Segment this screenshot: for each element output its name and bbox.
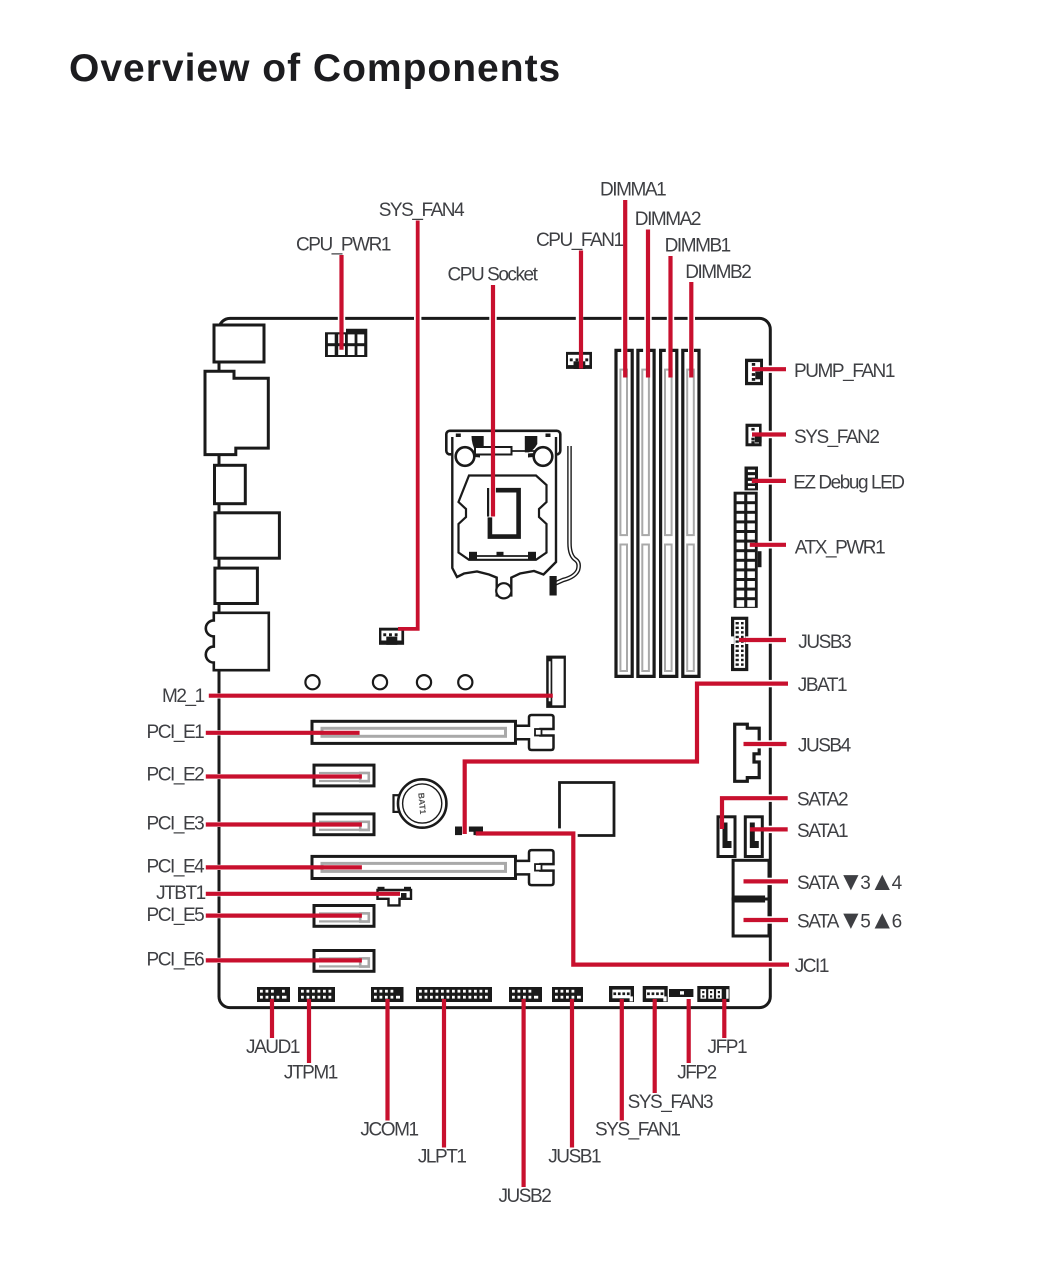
retention bracket top xyxy=(446,431,560,455)
io port 5 xyxy=(215,568,258,603)
leader SATA2 xyxy=(722,798,788,829)
circle left xyxy=(456,447,475,466)
bottom bar details xyxy=(469,555,536,557)
leader PUMP_FAN1 xyxy=(752,367,786,371)
bracket black wedges xyxy=(472,436,484,452)
leader PCI_E1 xyxy=(206,731,360,735)
PCI_E1 slot xyxy=(312,715,554,750)
leader JLPT1 xyxy=(442,999,446,1148)
svg-text:Overview of Components: Overview of Components xyxy=(69,47,561,90)
leader CPU_FAN1 xyxy=(579,251,583,369)
SATA1 port xyxy=(745,817,762,857)
leader JTPM1 xyxy=(307,999,311,1063)
header JCOM1 xyxy=(371,987,404,1002)
DIMM slot DIMMA1 xyxy=(616,350,632,676)
screw holes xyxy=(305,675,472,689)
svg-text:JCI1: JCI1 xyxy=(795,956,829,977)
PCI_E5 slot xyxy=(314,906,374,927)
leader SYS_FAN4 xyxy=(398,221,418,629)
thick divider xyxy=(733,896,765,903)
svg-text:SYS_FAN3: SYS_FAN3 xyxy=(628,1092,713,1113)
header SYS_FAN1 xyxy=(609,986,634,1002)
leader JCI1 xyxy=(476,834,789,965)
svg-text:SATA2: SATA2 xyxy=(797,790,848,811)
leader SYS_FAN1 xyxy=(620,999,624,1121)
leader PCI_E4 xyxy=(206,865,362,869)
svg-text:JTBT1: JTBT1 xyxy=(156,883,206,904)
leader PCI_E6 xyxy=(206,958,362,962)
header JFP2 xyxy=(669,989,693,997)
svg-text:JTPM1: JTPM1 xyxy=(284,1062,338,1083)
connector JUSB4 xyxy=(735,724,760,781)
leader SYS_FAN3 xyxy=(653,999,657,1093)
connector SYS_FAN2 xyxy=(746,424,762,447)
leader SATA 5/6 xyxy=(744,918,789,922)
header JUSB2 xyxy=(509,987,542,1002)
leader SATA 3/4 xyxy=(744,879,789,883)
SATA 5/6 block xyxy=(733,899,769,936)
leader JUSB3 xyxy=(739,638,786,642)
svg-text:JBAT1: JBAT1 xyxy=(798,675,847,696)
DIMM slot DIMMA2 xyxy=(638,350,654,676)
svg-text:PCI_E1: PCI_E1 xyxy=(147,722,205,743)
svg-text:JUSB2: JUSB2 xyxy=(498,1186,551,1207)
small PCI_E slots xyxy=(314,765,374,971)
svg-text:CPU_PWR1: CPU_PWR1 xyxy=(296,235,391,256)
header JFP1 xyxy=(697,986,729,1002)
leader PCI_E3 xyxy=(206,822,362,826)
socket body octagon xyxy=(459,476,547,560)
connector PUMP_FAN1 xyxy=(745,359,763,386)
leader SATA1 xyxy=(750,827,788,831)
leader DIMMB1 xyxy=(668,256,672,378)
front plate bar xyxy=(475,447,512,455)
svg-text:PCI_E5: PCI_E5 xyxy=(147,905,205,926)
DIMM slot DIMMB2 xyxy=(683,350,699,676)
connector CPU_PWR1 xyxy=(325,329,367,357)
svg-text:JLPT1: JLPT1 xyxy=(418,1147,467,1168)
leader JAUD1 xyxy=(270,999,274,1038)
svg-text:JUSB4: JUSB4 xyxy=(798,736,852,757)
cpu socket xyxy=(446,431,578,599)
header JUSB1 xyxy=(552,987,583,1002)
svg-text:JUSB3: JUSB3 xyxy=(798,632,851,653)
io port 3 xyxy=(215,465,246,503)
leader JUSB2 xyxy=(521,999,525,1187)
svg-text:JFP2: JFP2 xyxy=(677,1062,716,1083)
left IO shapes xyxy=(205,325,279,670)
leader CPU_PWR1 xyxy=(339,255,343,350)
latch PCI_E4 xyxy=(516,850,554,885)
jumper JCI1 xyxy=(469,827,483,836)
lever hook xyxy=(550,576,557,596)
leader M2_1 xyxy=(209,694,553,698)
connector SYS_FAN4 xyxy=(379,628,404,645)
PCI_E2 slot xyxy=(314,765,374,786)
jumper JBAT1 xyxy=(455,827,462,836)
io port 6 (audio) xyxy=(206,613,269,670)
svg-text:PCI_E6: PCI_E6 xyxy=(147,950,205,971)
svg-text:SATA▼3▲4: SATA▼3▲4 xyxy=(797,866,903,896)
PCI_E6 slot xyxy=(314,951,374,972)
connector ATX_PWR1 xyxy=(734,492,762,608)
svg-text:PCI_E4: PCI_E4 xyxy=(147,856,206,877)
svg-text:M2_1: M2_1 xyxy=(162,686,205,707)
leader DIMMA2 xyxy=(646,230,650,378)
SATA2 port xyxy=(718,817,735,857)
header JTPM1 xyxy=(298,987,335,1002)
svg-text:PCI_E3: PCI_E3 xyxy=(147,814,205,835)
svg-text:SATA▼5▲6: SATA▼5▲6 xyxy=(797,905,902,935)
io port 4 xyxy=(215,513,280,558)
red leader lines xyxy=(206,200,789,1187)
svg-text:PCI_E2: PCI_E2 xyxy=(147,765,205,786)
connector CPU_FAN1 xyxy=(566,352,592,369)
leader DIMMB2 xyxy=(689,282,693,378)
PCI_E3 slot xyxy=(314,814,374,835)
DIMM slot DIMMB1 xyxy=(661,350,677,676)
io port 1 xyxy=(214,325,264,362)
svg-text:CPU_FAN1: CPU_FAN1 xyxy=(536,230,623,251)
leader JFP1 xyxy=(722,999,726,1038)
leader SYS_FAN2 xyxy=(752,432,786,436)
header JLPT1 xyxy=(416,987,492,1002)
svg-text:PUMP_FAN1: PUMP_FAN1 xyxy=(794,361,895,382)
leader JTBT1 xyxy=(206,892,400,896)
svg-text:DIMMA2: DIMMA2 xyxy=(635,209,701,230)
svg-text:SYS_FAN1: SYS_FAN1 xyxy=(595,1119,680,1140)
leader JUSB1 xyxy=(570,999,574,1148)
battery BAT1 xyxy=(394,779,447,827)
leader JCOM1 xyxy=(385,999,389,1121)
chipset square xyxy=(560,783,615,836)
DIMM slots xyxy=(616,350,699,676)
connector M2_1 xyxy=(546,656,566,708)
svg-text:SYS_FAN2: SYS_FAN2 xyxy=(794,427,879,448)
latch PCI_E1 xyxy=(516,715,554,750)
socket plate xyxy=(452,437,556,595)
connector JUSB3 xyxy=(729,618,750,669)
white casing where leader lines cross board outline xyxy=(217,315,775,969)
leader PCI_E5 xyxy=(206,913,362,917)
leader PCI_E2 xyxy=(206,774,362,778)
inner square thick xyxy=(487,488,489,517)
right side connectors xyxy=(718,359,769,936)
EZ Debug LED xyxy=(745,467,759,491)
svg-text:ATX_PWR1: ATX_PWR1 xyxy=(795,537,885,558)
PCI_E4 slot xyxy=(312,850,554,885)
bottom header row xyxy=(257,986,730,1002)
leader JUSB4 xyxy=(744,742,787,746)
leader CPU Socket xyxy=(491,285,495,517)
header JAUD1 xyxy=(257,987,290,1002)
svg-text:DIMMB1: DIMMB1 xyxy=(665,236,731,257)
leader EZ Debug LED xyxy=(752,479,786,483)
connector JTBT1 xyxy=(378,887,412,906)
header SYS_FAN3 xyxy=(643,986,668,1002)
leader JFP2 xyxy=(687,999,691,1063)
svg-text:JCOM1: JCOM1 xyxy=(360,1119,418,1140)
svg-text:SYS_FAN4: SYS_FAN4 xyxy=(379,200,465,221)
svg-text:DIMMA1: DIMMA1 xyxy=(600,179,666,200)
leader JBAT1 xyxy=(465,684,788,834)
motherboard outline xyxy=(219,318,770,1007)
leader ATX_PWR1 xyxy=(750,543,786,547)
io port 2 (DVI) xyxy=(205,371,268,454)
svg-text:BAT1: BAT1 xyxy=(416,792,428,815)
svg-text:JUSB1: JUSB1 xyxy=(548,1147,601,1168)
svg-text:CPU Socket: CPU Socket xyxy=(448,264,539,285)
leader DIMMA1 xyxy=(623,200,627,378)
lever rod xyxy=(554,446,579,584)
svg-text:EZ Debug LED: EZ Debug LED xyxy=(793,472,904,493)
svg-text:JFP1: JFP1 xyxy=(708,1037,747,1058)
svg-text:JAUD1: JAUD1 xyxy=(246,1037,300,1058)
bottom tab circle xyxy=(496,583,511,598)
svg-text:DIMMB2: DIMMB2 xyxy=(685,262,751,283)
circle right xyxy=(534,447,553,466)
svg-text:SATA1: SATA1 xyxy=(797,821,848,842)
SATA 3/4 block xyxy=(733,860,769,899)
